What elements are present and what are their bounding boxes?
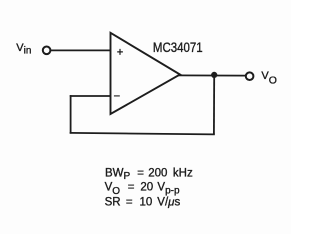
wire feedback left vertical <box>70 95 72 134</box>
svg-text:BWP=200kHz: BWP=200kHz <box>105 167 193 182</box>
wire op-amp inverting input to feedback corner <box>70 95 110 97</box>
terminal Vo <box>246 72 254 80</box>
wire feedback right vertical up to output node <box>213 76 215 135</box>
svg-text:MC34071: MC34071 <box>153 40 203 55</box>
op-amp U1 MC34071 <box>111 33 181 114</box>
svg-text:SR=10V/μs: SR=10V/μs <box>105 197 181 209</box>
terminal Vin <box>43 47 51 55</box>
svg-text:Vin: Vin <box>16 42 31 57</box>
svg-text:VO: VO <box>261 70 277 86</box>
op-amp noninverting input pin marker + <box>117 49 123 55</box>
junction dot output node <box>211 72 217 78</box>
svg-text:VO=20Vp-p: VO=20Vp-p <box>105 182 180 197</box>
wire feedback bottom horizontal <box>70 133 215 135</box>
wire Vin terminal to op-amp noninverting input <box>51 49 110 51</box>
wire op-amp output to Vo terminal <box>178 74 246 76</box>
op-amp inverting input pin marker - <box>114 95 120 97</box>
